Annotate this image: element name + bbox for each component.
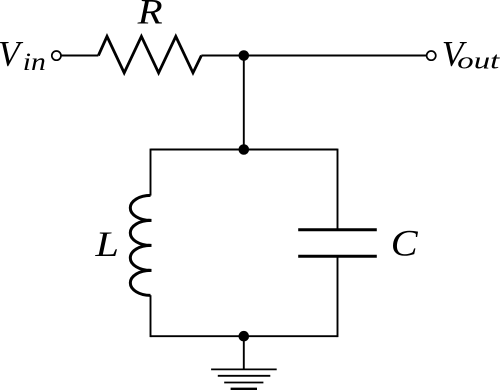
wire bottom rail [151,335,338,337]
capacitor C plate bottom [298,255,377,258]
inductor L [130,195,150,295]
node dot top [239,50,250,61]
wire resistor to Vout terminal [201,55,426,57]
output terminal [427,51,436,60]
wire right branch upper [337,149,339,230]
ground line 2 [218,375,270,377]
wire top node down to mid node [243,56,245,150]
ground line 1 [211,368,277,370]
svg-text:out: out [457,47,500,74]
input terminal [52,51,61,60]
node dot mid [239,144,250,155]
capacitor C plate top [298,228,377,231]
svg-text:V: V [0,34,24,74]
svg-text:in: in [23,48,46,75]
svg-text:L: L [94,225,119,264]
wire top rail [151,149,338,151]
inductor cusp nub 3 [148,269,152,272]
wire Vin to resistor [61,55,98,57]
wire left branch lower [150,295,152,337]
svg-text:R: R [137,0,163,32]
resistor R [98,36,201,72]
inductor cusp nub 2 [148,244,152,247]
wire ground stem [243,336,245,369]
wire left branch upper [150,149,152,196]
ground line 3 [224,382,263,384]
wire right branch lower [337,256,339,337]
node dot bottom [239,331,250,342]
svg-text:C: C [391,224,419,264]
inductor cusp nub 1 [148,219,152,222]
ground line 4 [231,388,257,390]
